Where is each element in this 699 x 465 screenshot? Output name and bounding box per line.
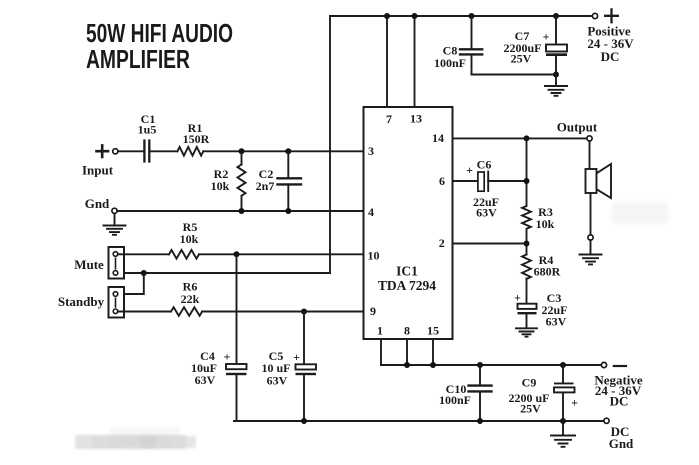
svg-text:2n7: 2n7 — [256, 179, 275, 193]
svg-text:+: + — [466, 163, 473, 177]
label Standby — [58, 294, 105, 309]
resistor R6 — [171, 307, 202, 316]
label IC1 — [378, 264, 436, 294]
capacitor C4 — [226, 364, 247, 375]
terminal dc gnd — [604, 418, 609, 423]
pin 7 — [386, 112, 392, 126]
junction dcgnd-C9 — [560, 418, 566, 424]
resistor R3 — [522, 206, 531, 229]
ground input — [104, 213, 126, 234]
connector Mute — [109, 247, 125, 279]
label R4 — [534, 253, 561, 279]
label R2 — [211, 167, 230, 193]
svg-text:C9: C9 — [522, 376, 537, 390]
wire C10 branch — [479, 365, 481, 421]
ground below C3 — [516, 314, 537, 336]
plus sign input — [97, 145, 109, 157]
wire R3-R4 — [526, 231, 528, 255]
svg-text:+: + — [571, 396, 578, 410]
svg-text:IC1: IC1 — [396, 264, 418, 279]
pin 3 — [368, 144, 374, 158]
svg-text:Standby: Standby — [58, 294, 105, 309]
svg-text:Output: Output — [557, 120, 598, 135]
svg-text:TDA 7294: TDA 7294 — [378, 278, 436, 293]
resistor R1 — [177, 147, 203, 156]
wire C7 branch — [555, 16, 557, 75]
svg-text:25V: 25V — [520, 402, 541, 416]
pin 10 — [368, 249, 380, 263]
ground below speaker — [580, 240, 602, 264]
label C6 — [466, 158, 499, 220]
svg-text:13: 13 — [410, 112, 422, 126]
pin 4 — [368, 205, 374, 219]
wire C8 branch — [471, 16, 473, 75]
label C8 — [434, 44, 466, 71]
wire pin7 supply drop — [386, 16, 388, 107]
svg-text:8: 8 — [404, 324, 410, 338]
pin 13 — [410, 112, 422, 126]
label Gnd — [85, 196, 110, 211]
junction R5-C4 — [234, 251, 240, 257]
capacitor C9 — [554, 383, 575, 393]
pin 1 — [377, 324, 383, 338]
wire standby to R6 — [118, 311, 364, 313]
junction rail-C10 — [477, 362, 483, 368]
label C7 — [503, 29, 549, 65]
wire R4-C3 — [526, 279, 528, 304]
wire C2 branch — [287, 151, 289, 211]
svg-text:22k: 22k — [181, 292, 200, 306]
wire pin15 drop — [432, 339, 434, 365]
svg-text:2: 2 — [439, 236, 445, 250]
watermark bottom left — [75, 427, 196, 449]
wire pin13 supply drop — [414, 16, 416, 107]
svg-text:25V: 25V — [511, 51, 532, 65]
junction rail-pin8 — [404, 362, 410, 368]
wire C4 branch — [236, 254, 238, 421]
svg-text:+: + — [543, 30, 550, 44]
wire R2 branch — [241, 151, 243, 211]
wire pin6 line — [453, 180, 527, 182]
svg-text:63V: 63V — [546, 315, 567, 329]
wire mute top to R5 — [118, 253, 364, 255]
wire C5 branch — [303, 312, 305, 422]
svg-text:100nF: 100nF — [434, 56, 466, 70]
wire gnd line — [117, 210, 363, 212]
ground below C7 — [545, 75, 567, 96]
capacitor C2 — [278, 178, 302, 184]
svg-text:1: 1 — [377, 324, 383, 338]
terminal negative — [601, 362, 606, 367]
svg-text:63V: 63V — [476, 206, 497, 220]
terminal output — [587, 136, 592, 141]
label R5 — [180, 220, 199, 246]
junction pin2-R3R4 — [524, 241, 530, 247]
label C9 — [508, 376, 578, 416]
resistor R2 — [238, 165, 246, 196]
svg-text:DC: DC — [601, 49, 620, 64]
wire pin14 output line — [453, 137, 587, 139]
junction dcgnd-C10 — [477, 418, 483, 424]
svg-text:9: 9 — [370, 304, 376, 318]
svg-text:150R: 150R — [183, 132, 210, 146]
label C4 — [191, 349, 231, 387]
pin 8 — [404, 324, 410, 338]
junction input-C2 — [285, 148, 291, 154]
junction rail-pin15 — [430, 362, 436, 368]
watermark right faint — [612, 202, 668, 224]
svg-text:Mute: Mute — [74, 257, 104, 272]
svg-text:6: 6 — [439, 174, 445, 188]
capacitor C5 — [296, 364, 317, 375]
junction gnd-C2 — [285, 208, 291, 214]
wire input line — [118, 150, 364, 152]
junction C6-output vertical — [524, 178, 530, 184]
minus sign negative terminal — [614, 365, 626, 367]
wire +V top rail — [330, 15, 592, 17]
junction mute-standby link — [141, 270, 147, 276]
plus sign positive terminal — [605, 9, 618, 22]
label R1 — [183, 121, 210, 146]
junction rail-C8 — [469, 13, 475, 19]
junction output vertical — [524, 135, 530, 141]
terminal input — [113, 149, 118, 154]
label Negative 24-36V DC — [594, 373, 643, 409]
wire pin1 drop — [380, 339, 382, 365]
capacitor C1 — [144, 141, 149, 162]
wire pin2 line — [453, 243, 527, 245]
label C5 — [261, 349, 300, 388]
svg-text:10k: 10k — [536, 217, 555, 231]
label Output — [557, 120, 598, 135]
terminal input gnd — [112, 208, 117, 213]
junction dcgnd-C5 — [301, 418, 307, 424]
svg-text:+: + — [224, 350, 231, 364]
junction C7-gnd-link — [553, 72, 559, 78]
label Positive 24-36V DC — [587, 23, 634, 63]
label C1 — [138, 112, 157, 137]
label R6 — [181, 280, 200, 307]
label Mute — [74, 257, 104, 272]
svg-text:Gnd: Gnd — [85, 196, 110, 211]
junction rail-pin7 — [384, 13, 390, 19]
svg-text:AMPLIFIER: AMPLIFIER — [86, 44, 190, 74]
junction rail-C7 — [553, 13, 559, 19]
svg-text:+: + — [293, 350, 300, 364]
svg-text:10k: 10k — [180, 232, 199, 246]
wire +V left drop to mute line — [329, 16, 331, 273]
capacitor C10 — [469, 386, 492, 392]
svg-text:14: 14 — [432, 131, 444, 145]
label C3 — [514, 291, 567, 329]
label C2 — [256, 167, 275, 193]
wire output vertical upper — [526, 138, 528, 205]
wire negative rail — [381, 364, 601, 366]
capacitor C8 — [460, 49, 482, 54]
svg-text:680R: 680R — [534, 265, 561, 279]
svg-text:Gnd: Gnd — [609, 436, 634, 451]
junction rail-C9 — [560, 362, 566, 368]
junction gnd-R2 — [239, 208, 245, 214]
junction rail-pin13 — [412, 13, 418, 19]
connector Standby — [109, 287, 125, 318]
svg-text:63V: 63V — [195, 373, 216, 387]
wire mute-standby link — [126, 273, 144, 294]
ground below C9 — [551, 421, 575, 447]
svg-text:1u5: 1u5 — [138, 123, 157, 137]
wire dc gnd rail — [234, 420, 604, 422]
label Input — [82, 163, 114, 178]
pin 9 — [370, 304, 376, 318]
svg-text:DC: DC — [610, 394, 629, 409]
terminal speaker gnd — [588, 235, 593, 240]
title — [86, 18, 233, 74]
svg-text:4: 4 — [368, 205, 374, 219]
svg-text:100nF: 100nF — [439, 393, 471, 407]
label C10 — [439, 382, 471, 407]
resistor R4 — [522, 255, 531, 280]
capacitor C7 — [546, 45, 567, 57]
wire speaker top — [589, 141, 591, 169]
pin 15 — [427, 324, 439, 338]
wire speaker bottom — [590, 193, 592, 235]
capacitor C6 — [478, 172, 488, 192]
label DC Gnd — [609, 424, 634, 451]
svg-text:C6: C6 — [477, 158, 492, 172]
junction R6-C5 — [301, 309, 307, 315]
svg-text:3: 3 — [368, 144, 374, 158]
wire C9 branch — [562, 365, 564, 421]
junction input-R2 — [239, 148, 245, 154]
wire C8-C7 ground link — [472, 74, 557, 76]
speaker LS1 — [586, 164, 612, 198]
pin 14 — [432, 131, 444, 145]
svg-text:7: 7 — [386, 112, 392, 126]
terminal positive — [592, 13, 597, 18]
op-amp IC1 TDA7294 — [364, 107, 453, 339]
svg-text:+: + — [514, 291, 521, 305]
wire pin8 drop — [406, 339, 408, 365]
svg-text:63V: 63V — [267, 374, 288, 388]
pin 6 — [439, 174, 445, 188]
capacitor C3 — [518, 304, 537, 315]
resistor R5 — [169, 250, 199, 259]
svg-text:10: 10 — [368, 249, 380, 263]
svg-text:15: 15 — [427, 324, 439, 338]
label R3 — [536, 205, 555, 231]
wire mute bottom line — [124, 272, 330, 274]
svg-text:Input: Input — [82, 163, 114, 178]
svg-text:10k: 10k — [211, 179, 230, 193]
pin 2 — [439, 236, 445, 250]
